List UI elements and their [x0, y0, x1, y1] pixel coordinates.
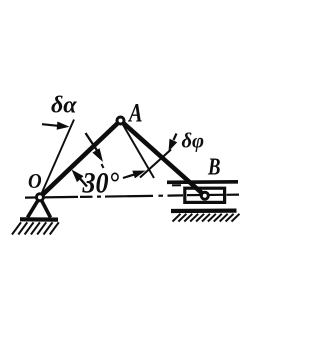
- svg-text:A: A: [127, 99, 142, 128]
- svg-text:δα: δα: [51, 93, 77, 119]
- svg-text:B: B: [207, 153, 220, 180]
- svg-text:δφ: δφ: [182, 129, 205, 152]
- svg-text:30°: 30°: [82, 167, 120, 200]
- svg-text:O: O: [28, 170, 42, 193]
